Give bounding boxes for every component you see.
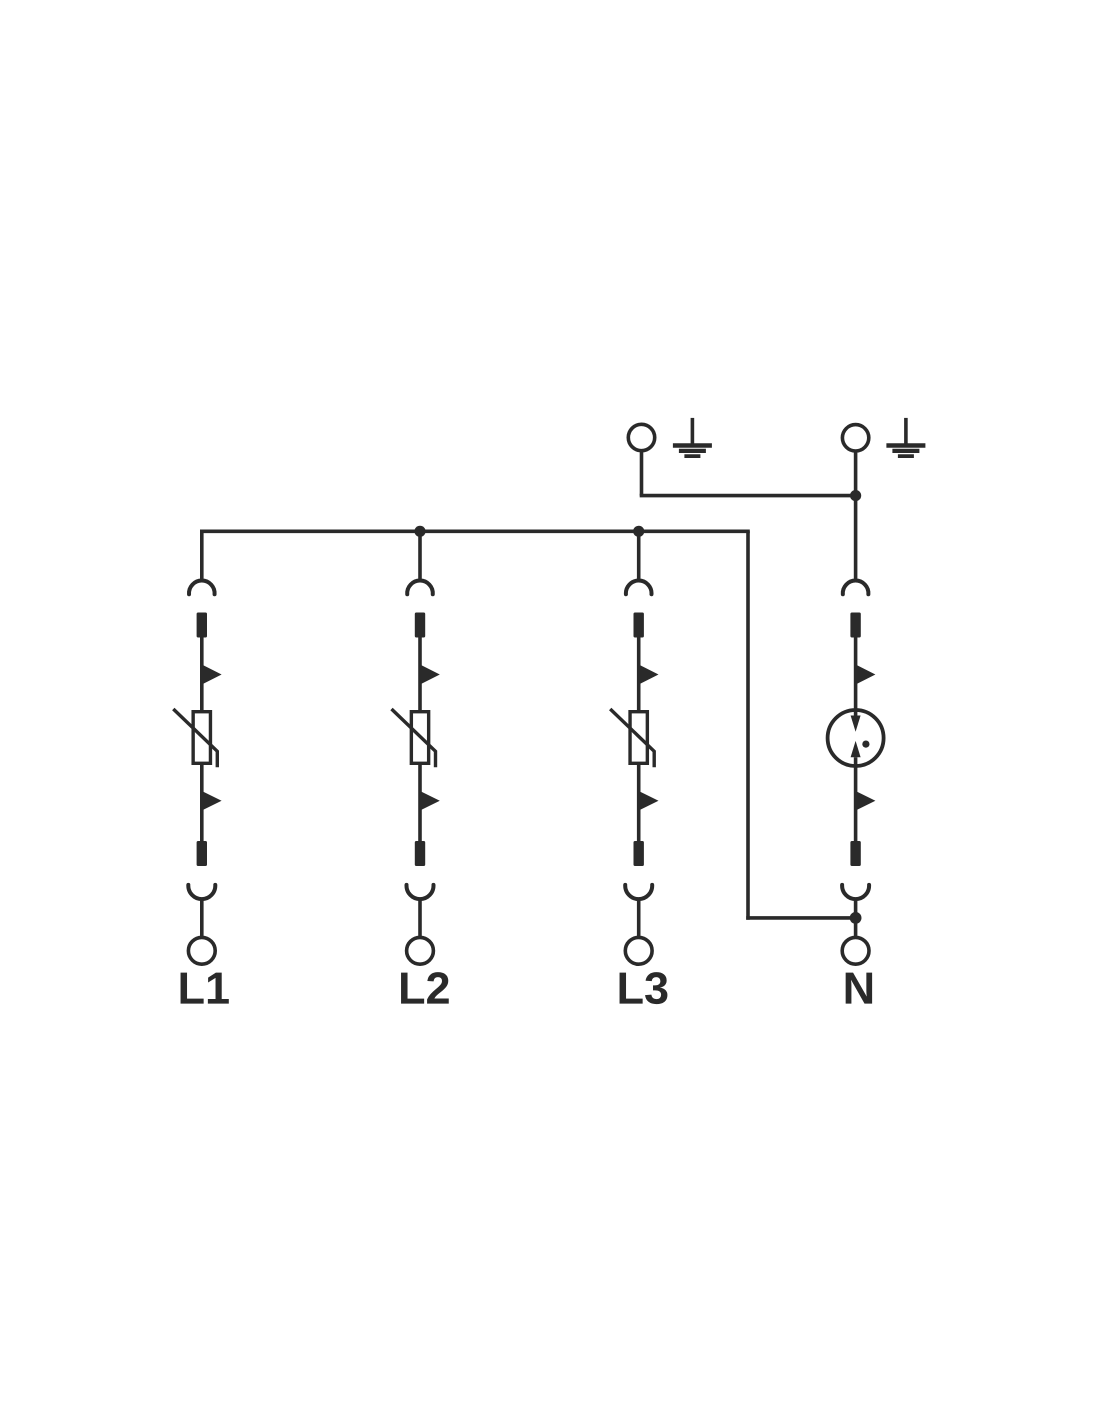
- ground terminal circle left: [628, 424, 654, 450]
- disconnect arc top L2: [407, 581, 433, 595]
- junction L3 bus: [633, 526, 644, 537]
- ground terminal circle right: [842, 425, 868, 451]
- wire L1 bottom lead: [200, 899, 204, 937]
- terminal circle L2: [407, 937, 434, 964]
- label N: [846, 973, 872, 1004]
- arrow L1 upper: [202, 665, 222, 685]
- disconnect arc top L3: [626, 581, 652, 595]
- terminal block L1 lower: [197, 841, 207, 866]
- terminal block L3 upper: [634, 613, 644, 638]
- label L2: [401, 972, 449, 1003]
- terminal block L2 upper: [415, 613, 425, 638]
- disconnect arc top L1: [189, 581, 215, 595]
- terminal circle L3: [625, 937, 652, 964]
- wire L1 top stub: [200, 530, 204, 581]
- varistor L2: [411, 712, 428, 764]
- arrow N lower: [856, 791, 876, 811]
- wire L1 lower segment: [200, 765, 204, 841]
- wire L2 top stub: [418, 531, 422, 580]
- terminal circle N: [842, 937, 869, 964]
- wire L2 upper segment: [418, 638, 422, 711]
- ground symbol right: [886, 418, 925, 456]
- varistor L1: [193, 712, 210, 764]
- arrow L3 lower: [639, 791, 659, 811]
- wire L bus horizontal: [202, 529, 750, 533]
- terminal block L1 upper: [197, 613, 207, 638]
- wire bus right drop: [746, 531, 750, 919]
- wire left ground terminal drop: [640, 451, 644, 496]
- wire N lower segment: [854, 757, 858, 841]
- disconnect arc bottom L2: [407, 885, 434, 899]
- gas discharge tube N: [828, 710, 884, 766]
- disconnect arc bottom L1: [188, 885, 215, 899]
- terminal block N lower: [850, 841, 860, 866]
- terminal circle L1: [188, 937, 215, 964]
- label L1: [181, 973, 229, 1004]
- varistor L3: [630, 712, 647, 764]
- arrow L1 lower: [202, 791, 222, 811]
- junction ground bus / N branch: [850, 490, 861, 501]
- junction N bottom node: [850, 912, 862, 924]
- wire N upper segment: [854, 638, 858, 717]
- wire L1 upper segment: [200, 638, 204, 711]
- junction L2 bus: [414, 526, 425, 537]
- arrow L2 lower: [420, 791, 440, 811]
- arrow L3 upper: [639, 665, 659, 685]
- label L3: [620, 972, 668, 1004]
- wire bottom horizontal to N: [746, 916, 855, 920]
- ground symbol left: [673, 418, 712, 456]
- disconnect arc bottom L3: [625, 885, 652, 899]
- wire L3 top stub: [637, 531, 641, 580]
- terminal block N upper: [850, 613, 860, 638]
- wire L3 bottom lead: [637, 899, 641, 937]
- terminal block L3 lower: [634, 841, 644, 866]
- terminal block L2 lower: [415, 841, 425, 866]
- arrow N upper: [856, 665, 876, 685]
- disconnect arc top N: [843, 581, 869, 595]
- wire right ground terminal to N branch: [854, 451, 858, 580]
- wire L3 upper segment: [637, 638, 641, 711]
- wire L3 lower segment: [637, 765, 641, 841]
- wire ground bus horizontal: [640, 494, 856, 498]
- wire L2 bottom lead: [418, 899, 422, 937]
- wire N bottom lead: [854, 899, 858, 937]
- wire L2 lower segment: [418, 765, 422, 841]
- disconnect arc bottom N: [842, 885, 869, 899]
- arrow L2 upper: [420, 665, 440, 685]
